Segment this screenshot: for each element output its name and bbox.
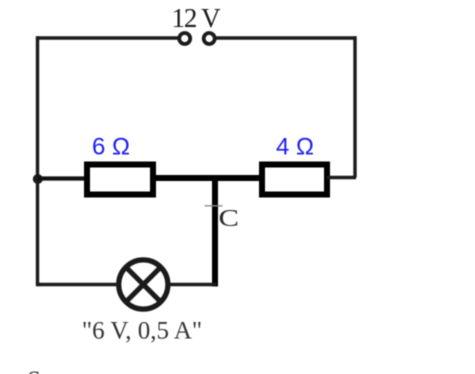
terminal circle left (source plug) (179, 33, 190, 44)
wire R2 to right vertical (327, 176, 356, 179)
resistor R2 (4 ohm) (262, 165, 327, 195)
terminal circle right (source plug) (204, 33, 215, 44)
lamp L1 cross diagonal 2 (126, 267, 161, 302)
svg-text:4 Ω: 4 Ω (276, 134, 314, 161)
wire left vertical (36, 36, 39, 286)
lamp L1 circle (119, 260, 168, 309)
svg-text:12 V: 12 V (172, 3, 222, 33)
wire right vertical (353, 36, 356, 177)
wire top-left segment (36, 36, 178, 39)
wire thick middle segment R1 to R2 (153, 175, 262, 181)
wire bottom-right segment (170, 283, 216, 286)
wire top-right segment (217, 36, 357, 39)
svg-text:S: S (27, 367, 41, 374)
resistor R1 (6 ohm) (87, 165, 153, 195)
tick mark at node C (205, 205, 223, 207)
lamp L1 cross diagonal 1 (126, 267, 161, 302)
wire vertical branch to node C (212, 175, 218, 287)
svg-text:C: C (219, 204, 239, 231)
svg-text:"6 V, 0,5 A": "6 V, 0,5 A" (82, 318, 202, 345)
wire bottom-left segment (38, 283, 118, 286)
node junction dot on left wire (33, 174, 43, 184)
svg-text:6 Ω: 6 Ω (92, 134, 130, 161)
wire node to resistor R1 (38, 176, 86, 180)
